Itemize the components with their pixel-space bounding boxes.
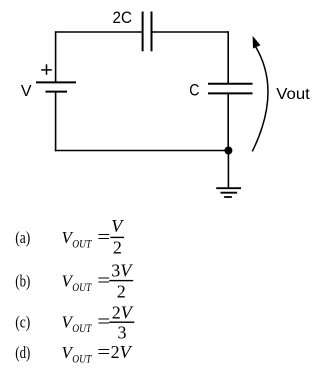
svg-text:OUT: OUT <box>72 280 92 294</box>
wire right vertical upper <box>227 31 229 83</box>
option (a) formula V_OUT = V/2 <box>62 216 125 258</box>
svg-text:2: 2 <box>113 237 122 257</box>
option (c) formula V_OUT = 2V/3 <box>62 303 135 343</box>
svg-text:=: = <box>97 270 110 291</box>
wire ground stem <box>227 151 229 189</box>
ground <box>216 188 241 197</box>
svg-text:2V: 2V <box>112 303 134 323</box>
battery V <box>36 82 76 91</box>
svg-text:(b): (b) <box>15 271 30 290</box>
svg-text:=: = <box>97 312 110 333</box>
battery plus sign <box>41 64 52 75</box>
wire left vertical lower <box>55 92 57 152</box>
svg-text:OUT: OUT <box>72 236 92 250</box>
svg-text:=: = <box>97 227 110 248</box>
wire left vertical upper <box>55 31 57 82</box>
svg-text:C: C <box>189 81 199 100</box>
svg-text:V: V <box>21 83 32 100</box>
svg-text:(d): (d) <box>15 343 30 362</box>
wire top-right segment <box>152 31 229 33</box>
svg-text:3: 3 <box>118 323 127 343</box>
svg-text:Vout: Vout <box>276 86 310 103</box>
option (d) formula V_OUT = 2V <box>62 342 133 366</box>
svg-text:(a): (a) <box>15 228 30 247</box>
capacitor 2C <box>143 12 152 52</box>
svg-text:3V: 3V <box>111 261 133 281</box>
option (b) formula V_OUT = 3V/2 <box>62 261 134 302</box>
wire top-left segment <box>56 31 143 33</box>
svg-text:2V: 2V <box>111 342 133 362</box>
wire bottom segment <box>55 150 229 152</box>
Vout arrow <box>252 36 268 151</box>
wire right vertical lower <box>227 93 229 150</box>
svg-text:=: = <box>97 342 110 363</box>
svg-text:2C: 2C <box>113 9 133 27</box>
svg-text:OUT: OUT <box>72 352 92 366</box>
svg-text:2: 2 <box>117 281 126 301</box>
svg-text:V: V <box>111 216 124 236</box>
node junction dot <box>224 147 232 155</box>
capacitor C <box>208 84 253 94</box>
svg-text:(c): (c) <box>15 313 30 332</box>
svg-text:OUT: OUT <box>72 321 92 335</box>
